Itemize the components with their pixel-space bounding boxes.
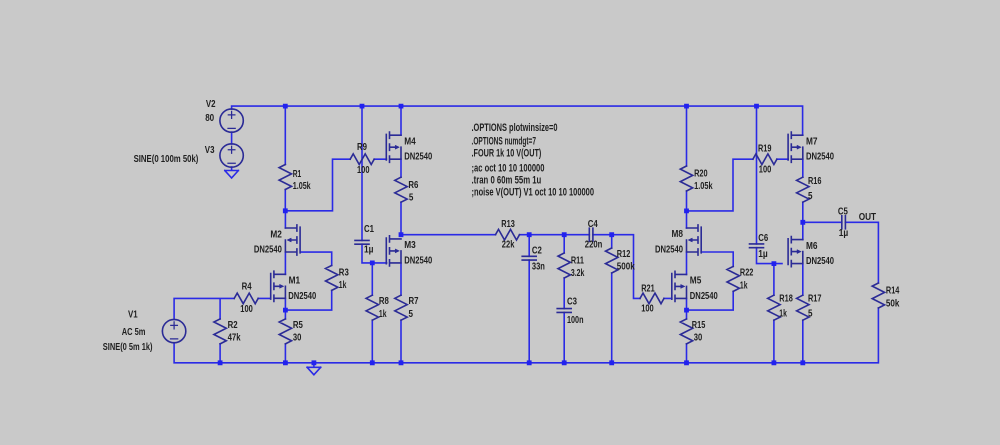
svg-text:DN2540: DN2540 [690, 291, 718, 302]
svg-text:100: 100 [357, 165, 370, 176]
svg-text:R13: R13 [501, 219, 515, 230]
svg-text:C2: C2 [532, 246, 542, 257]
svg-text:220n: 220n [585, 240, 603, 251]
svg-text:R18: R18 [779, 293, 793, 304]
svg-text:OUT: OUT [859, 212, 877, 223]
svg-text:C5: C5 [838, 206, 848, 217]
svg-text:22k: 22k [502, 239, 515, 250]
svg-text:1k: 1k [379, 309, 387, 320]
svg-text:1.05k: 1.05k [694, 181, 713, 192]
svg-text:5: 5 [808, 309, 813, 320]
svg-text:.FOUR 1k 10 V(OUT): .FOUR 1k 10 V(OUT) [472, 148, 542, 160]
svg-text:100n: 100n [567, 315, 584, 326]
svg-text:R19: R19 [758, 144, 772, 155]
svg-text:50k: 50k [886, 299, 900, 310]
svg-text:R5: R5 [293, 320, 303, 331]
svg-text:DN2540: DN2540 [288, 291, 316, 302]
svg-text:R16: R16 [808, 176, 822, 187]
svg-text:.OPTIONS numdgt=7: .OPTIONS numdgt=7 [472, 136, 537, 148]
svg-text:R6: R6 [408, 180, 418, 191]
svg-text:5: 5 [409, 309, 414, 320]
svg-text:R7: R7 [409, 296, 419, 307]
svg-text:1µ: 1µ [364, 245, 374, 256]
svg-text:C1: C1 [364, 224, 374, 235]
svg-text:R2: R2 [228, 320, 238, 331]
svg-text:100: 100 [240, 304, 253, 315]
svg-text:R14: R14 [886, 286, 900, 297]
svg-text:M6: M6 [806, 241, 818, 252]
svg-text:SINE(0 100m 50k): SINE(0 100m 50k) [134, 154, 199, 165]
svg-text:R9: R9 [357, 142, 367, 153]
svg-text:M5: M5 [690, 276, 702, 287]
svg-text:DN2540: DN2540 [254, 245, 282, 256]
svg-text:1µ: 1µ [758, 249, 768, 260]
svg-text:R4: R4 [242, 281, 252, 292]
svg-text:500k: 500k [617, 261, 635, 272]
svg-text:C3: C3 [567, 297, 577, 308]
svg-text:30: 30 [293, 333, 302, 344]
svg-text:;noise V(OUT) V1 oct 10 10 100: ;noise V(OUT) V1 oct 10 10 100000 [472, 186, 595, 198]
svg-text:M1: M1 [289, 276, 301, 287]
svg-text:33n: 33n [532, 262, 545, 273]
svg-text:C6: C6 [758, 233, 768, 244]
svg-text:.tran 0 60m 55m 1u: .tran 0 60m 55m 1u [472, 174, 542, 186]
svg-text:100: 100 [641, 304, 654, 315]
svg-text:1k: 1k [740, 281, 748, 292]
svg-text:DN2540: DN2540 [404, 255, 432, 266]
svg-text:R8: R8 [379, 296, 389, 307]
svg-text:C4: C4 [588, 219, 598, 230]
svg-text:R20: R20 [694, 169, 708, 180]
svg-text:;ac oct 10 10 100000: ;ac oct 10 10 100000 [472, 163, 545, 175]
svg-text:V2: V2 [206, 99, 216, 110]
svg-text:.OPTIONS plotwinsize=0: .OPTIONS plotwinsize=0 [472, 122, 558, 134]
svg-text:SINE(0 5m 1k): SINE(0 5m 1k) [103, 342, 153, 353]
svg-text:M8: M8 [672, 229, 684, 240]
svg-text:1µ: 1µ [839, 228, 849, 239]
svg-text:DN2540: DN2540 [806, 152, 834, 163]
svg-text:DN2540: DN2540 [806, 256, 834, 267]
svg-text:AC 5m: AC 5m [122, 327, 146, 338]
svg-text:1k: 1k [339, 280, 347, 291]
svg-text:5: 5 [808, 191, 813, 202]
svg-text:M3: M3 [404, 240, 416, 251]
svg-text:30: 30 [694, 333, 703, 344]
svg-text:R15: R15 [692, 320, 706, 331]
svg-text:47k: 47k [228, 333, 241, 344]
svg-text:R3: R3 [339, 268, 349, 279]
svg-text:R12: R12 [617, 249, 631, 260]
svg-text:M4: M4 [404, 136, 416, 147]
svg-text:1.05k: 1.05k [293, 181, 311, 192]
svg-text:DN2540: DN2540 [404, 152, 432, 163]
svg-text:V3: V3 [205, 145, 215, 156]
svg-text:R22: R22 [740, 268, 754, 279]
svg-text:80: 80 [205, 113, 214, 124]
svg-text:3.2k: 3.2k [571, 268, 585, 279]
svg-text:M2: M2 [270, 229, 282, 240]
svg-text:R17: R17 [808, 293, 822, 304]
svg-text:R1: R1 [293, 169, 302, 180]
svg-text:V1: V1 [128, 309, 138, 320]
svg-text:M7: M7 [806, 136, 818, 147]
svg-text:5: 5 [409, 193, 414, 204]
svg-text:R11: R11 [571, 256, 584, 267]
svg-text:100: 100 [759, 165, 772, 176]
svg-text:R21: R21 [641, 284, 655, 295]
svg-text:DN2540: DN2540 [655, 245, 683, 256]
svg-text:1k: 1k [779, 309, 787, 320]
